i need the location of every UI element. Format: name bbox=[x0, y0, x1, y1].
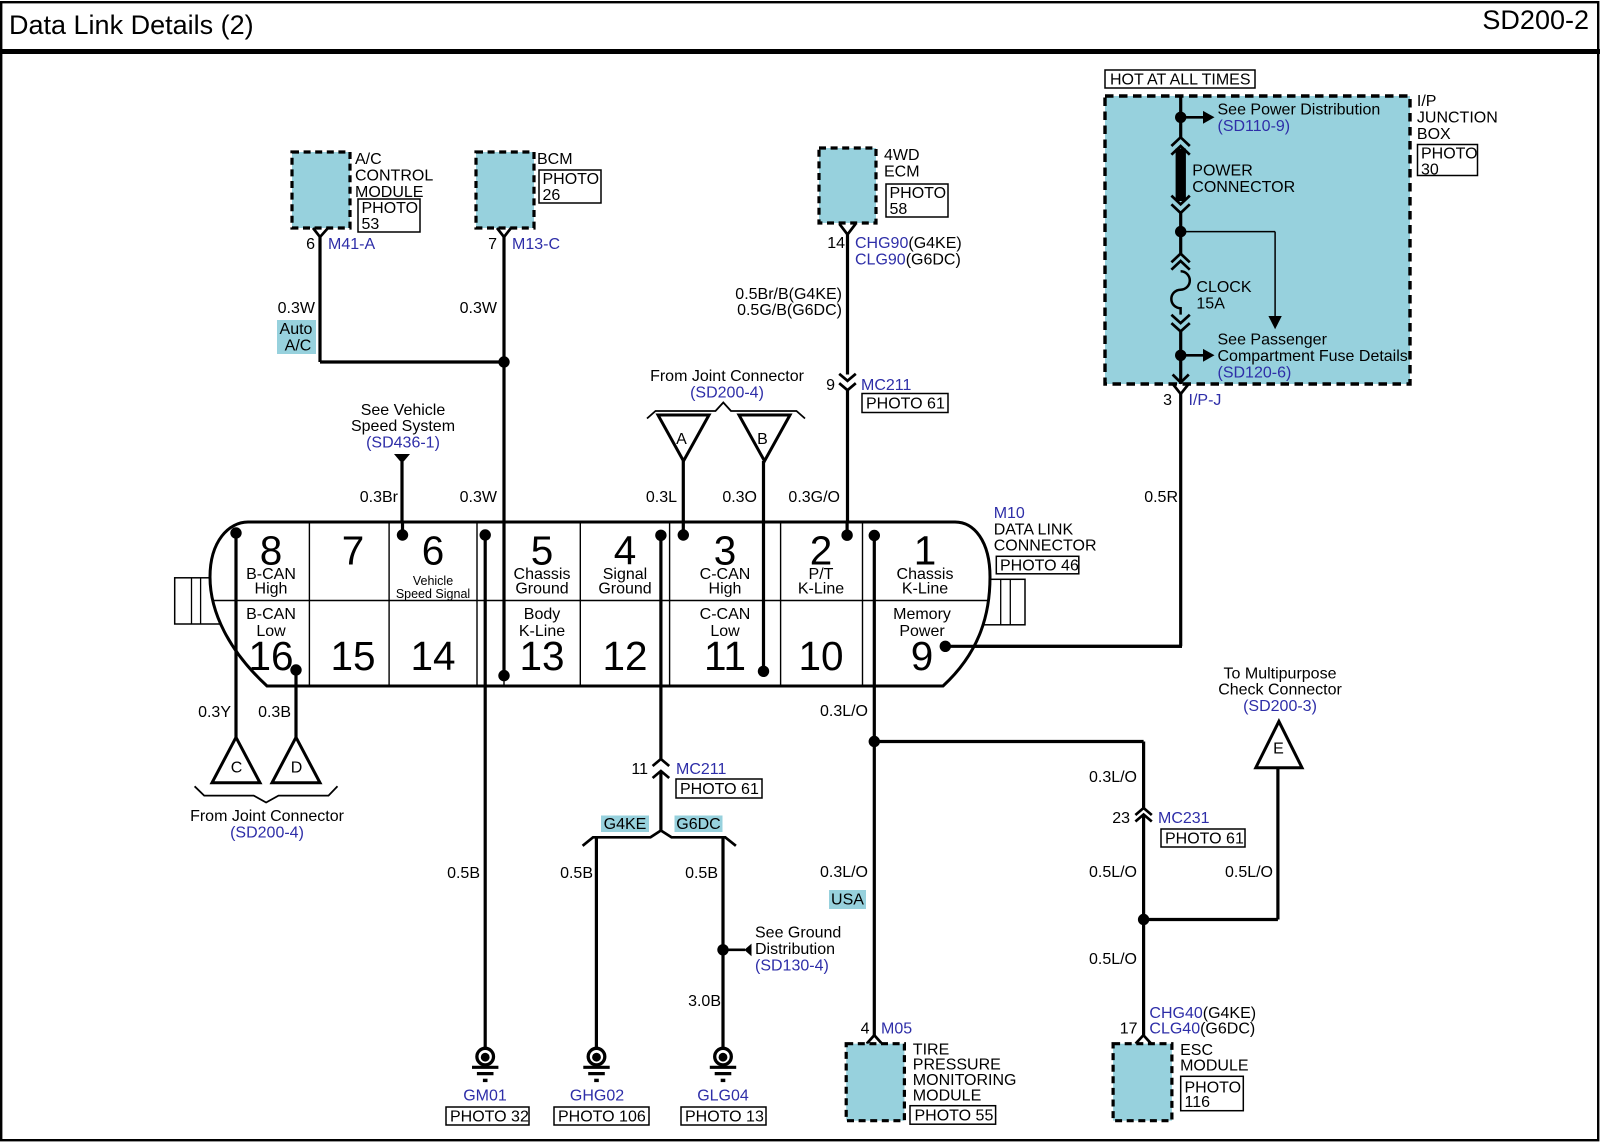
svg-text:USA: USA bbox=[831, 892, 864, 909]
svg-text:Speed Signal: Speed Signal bbox=[396, 587, 470, 601]
svg-text:0.5L/O: 0.5L/O bbox=[1089, 951, 1137, 968]
svg-text:Vehicle: Vehicle bbox=[413, 574, 453, 588]
svg-text:0.5B: 0.5B bbox=[447, 865, 480, 882]
svg-text:A/C: A/C bbox=[285, 338, 312, 355]
svg-text:3: 3 bbox=[1163, 392, 1172, 409]
svg-text:K-Line: K-Line bbox=[902, 581, 948, 598]
svg-text:0.5Br/B(G4KE): 0.5Br/B(G4KE) bbox=[735, 286, 842, 303]
svg-text:9: 9 bbox=[826, 377, 835, 394]
svg-text:0.5L/O: 0.5L/O bbox=[1225, 864, 1273, 881]
svg-text:CONTROL: CONTROL bbox=[355, 168, 433, 185]
svg-text:15: 15 bbox=[330, 633, 375, 679]
svg-text:0.3W: 0.3W bbox=[460, 300, 498, 317]
svg-text:I/P-J: I/P-J bbox=[1189, 392, 1222, 409]
svg-text:10: 10 bbox=[798, 633, 843, 679]
svg-text:7: 7 bbox=[488, 236, 497, 253]
svg-text:BOX: BOX bbox=[1417, 126, 1451, 143]
svg-text:Ground: Ground bbox=[515, 581, 568, 598]
svg-text:15A: 15A bbox=[1196, 296, 1225, 313]
svg-text:SD200-2: SD200-2 bbox=[1482, 5, 1589, 35]
svg-text:A: A bbox=[676, 431, 687, 448]
svg-text:PHOTO: PHOTO bbox=[1421, 146, 1478, 163]
svg-text:HOT AT ALL TIMES: HOT AT ALL TIMES bbox=[1110, 72, 1251, 89]
svg-text:POWER: POWER bbox=[1192, 163, 1252, 180]
svg-text:See Vehicle: See Vehicle bbox=[361, 402, 446, 419]
svg-text:17: 17 bbox=[1120, 1021, 1138, 1038]
svg-text:Distribution: Distribution bbox=[755, 941, 835, 958]
svg-text:11: 11 bbox=[631, 761, 648, 778]
svg-text:To Multipurpose: To Multipurpose bbox=[1224, 666, 1337, 683]
svg-text:High: High bbox=[255, 581, 288, 598]
svg-text:PHOTO 61: PHOTO 61 bbox=[866, 396, 945, 413]
svg-text:6: 6 bbox=[422, 528, 445, 574]
svg-text:G4KE: G4KE bbox=[604, 816, 647, 833]
svg-text:CHG40(G4KE): CHG40(G4KE) bbox=[1149, 1005, 1256, 1022]
svg-text:Data Link Details (2): Data Link Details (2) bbox=[9, 10, 254, 40]
svg-text:13: 13 bbox=[519, 633, 564, 679]
svg-text:4WD: 4WD bbox=[884, 147, 920, 164]
svg-text:0.5G/B(G6DC): 0.5G/B(G6DC) bbox=[737, 302, 842, 319]
svg-text:M10: M10 bbox=[994, 505, 1025, 522]
svg-text:12: 12 bbox=[602, 633, 647, 679]
svg-text:MODULE: MODULE bbox=[1180, 1058, 1248, 1075]
svg-text:14: 14 bbox=[827, 235, 845, 252]
svg-text:CONNECTOR: CONNECTOR bbox=[1192, 179, 1295, 196]
svg-text:(SD120-6): (SD120-6) bbox=[1218, 365, 1292, 382]
svg-text:See Ground: See Ground bbox=[755, 925, 841, 942]
svg-text:30: 30 bbox=[1421, 162, 1439, 179]
svg-text:0.3B: 0.3B bbox=[258, 704, 291, 721]
svg-text:0.3Br: 0.3Br bbox=[360, 489, 399, 506]
svg-text:See Passenger: See Passenger bbox=[1218, 332, 1328, 349]
svg-text:CLOCK: CLOCK bbox=[1196, 279, 1251, 296]
svg-text:PHOTO 106: PHOTO 106 bbox=[558, 1109, 646, 1126]
svg-text:PHOTO: PHOTO bbox=[543, 171, 600, 188]
svg-text:CLG40(G6DC): CLG40(G6DC) bbox=[1149, 1021, 1255, 1038]
svg-text:(SD130-4): (SD130-4) bbox=[755, 958, 829, 975]
svg-text:CONNECTOR: CONNECTOR bbox=[994, 538, 1097, 555]
svg-text:Memory: Memory bbox=[893, 606, 951, 623]
svg-text:A/C: A/C bbox=[355, 151, 382, 168]
svg-text:BCM: BCM bbox=[537, 151, 573, 168]
svg-text:(SD110-9): (SD110-9) bbox=[1218, 118, 1291, 135]
svg-text:PHOTO 61: PHOTO 61 bbox=[680, 781, 759, 798]
svg-text:C-CAN: C-CAN bbox=[700, 606, 751, 623]
svg-text:JUNCTION: JUNCTION bbox=[1417, 110, 1498, 127]
svg-text:PHOTO: PHOTO bbox=[890, 185, 947, 202]
svg-text:0.3L: 0.3L bbox=[646, 489, 677, 506]
svg-text:(SD200-4): (SD200-4) bbox=[690, 385, 764, 402]
svg-text:53: 53 bbox=[362, 216, 380, 233]
svg-text:PHOTO 13: PHOTO 13 bbox=[685, 1109, 764, 1126]
svg-text:C: C bbox=[231, 760, 243, 777]
svg-text:11: 11 bbox=[704, 633, 746, 679]
svg-text:Check Connector: Check Connector bbox=[1218, 682, 1342, 699]
svg-text:Body: Body bbox=[524, 606, 560, 623]
svg-text:3.0B: 3.0B bbox=[688, 993, 721, 1010]
svg-text:B-CAN: B-CAN bbox=[246, 606, 296, 623]
svg-text:G6DC: G6DC bbox=[676, 816, 720, 833]
svg-text:0.3O: 0.3O bbox=[722, 489, 757, 506]
svg-text:CLG90(G6DC): CLG90(G6DC) bbox=[855, 252, 961, 269]
svg-text:(SD200-3): (SD200-3) bbox=[1243, 698, 1317, 715]
svg-text:Ground: Ground bbox=[598, 581, 651, 598]
svg-text:26: 26 bbox=[543, 187, 561, 204]
svg-text:0.3W: 0.3W bbox=[460, 489, 498, 506]
svg-text:High: High bbox=[709, 581, 742, 598]
svg-text:CHG90(G4KE): CHG90(G4KE) bbox=[855, 235, 962, 252]
svg-text:0.3L/O: 0.3L/O bbox=[820, 864, 868, 881]
svg-text:GLG04: GLG04 bbox=[697, 1088, 749, 1105]
svg-text:M05: M05 bbox=[881, 1021, 912, 1038]
svg-text:0.3G/O: 0.3G/O bbox=[788, 489, 840, 506]
svg-text:D: D bbox=[291, 760, 303, 777]
svg-text:MONITORING: MONITORING bbox=[913, 1072, 1017, 1089]
svg-text:9: 9 bbox=[911, 633, 934, 679]
svg-text:Auto: Auto bbox=[280, 321, 313, 338]
svg-text:See Power Distribution: See Power Distribution bbox=[1218, 102, 1381, 119]
svg-text:PHOTO 32: PHOTO 32 bbox=[450, 1109, 529, 1126]
svg-text:M41-A: M41-A bbox=[328, 236, 375, 253]
svg-text:0.3L/O: 0.3L/O bbox=[820, 703, 868, 720]
svg-text:(SD200-4): (SD200-4) bbox=[230, 825, 304, 842]
svg-text:PHOTO 61: PHOTO 61 bbox=[1165, 831, 1244, 848]
svg-text:PHOTO 55: PHOTO 55 bbox=[915, 1107, 994, 1124]
svg-text:4: 4 bbox=[861, 1021, 870, 1038]
svg-text:6: 6 bbox=[306, 236, 315, 253]
svg-text:DATA LINK: DATA LINK bbox=[994, 522, 1074, 539]
svg-text:From Joint Connector: From Joint Connector bbox=[650, 368, 805, 385]
svg-text:PHOTO: PHOTO bbox=[362, 200, 419, 217]
svg-text:Speed System: Speed System bbox=[351, 418, 455, 435]
svg-text:MC211: MC211 bbox=[861, 377, 911, 394]
svg-text:58: 58 bbox=[890, 201, 908, 218]
svg-text:GM01: GM01 bbox=[463, 1088, 507, 1105]
svg-text:E: E bbox=[1273, 741, 1284, 758]
svg-text:ESC: ESC bbox=[1180, 1042, 1213, 1059]
svg-text:23: 23 bbox=[1112, 810, 1130, 827]
svg-text:MC211: MC211 bbox=[676, 761, 726, 778]
svg-text:M13-C: M13-C bbox=[512, 236, 560, 253]
svg-text:GHG02: GHG02 bbox=[570, 1088, 624, 1105]
svg-text:0.5B: 0.5B bbox=[560, 865, 593, 882]
svg-text:PHOTO 46: PHOTO 46 bbox=[1000, 558, 1079, 575]
svg-text:I/P: I/P bbox=[1417, 93, 1437, 110]
svg-text:0.3L/O: 0.3L/O bbox=[1089, 769, 1137, 786]
svg-text:From Joint Connector: From Joint Connector bbox=[190, 808, 345, 825]
svg-text:0.5R: 0.5R bbox=[1144, 489, 1178, 506]
svg-text:0.5L/O: 0.5L/O bbox=[1089, 864, 1137, 881]
svg-text:ECM: ECM bbox=[884, 164, 920, 181]
svg-text:B: B bbox=[757, 431, 768, 448]
svg-text:14: 14 bbox=[410, 633, 455, 679]
svg-text:116: 116 bbox=[1185, 1094, 1211, 1111]
svg-text:0.3Y: 0.3Y bbox=[198, 704, 231, 721]
svg-text:MODULE: MODULE bbox=[913, 1087, 981, 1104]
svg-text:16: 16 bbox=[248, 633, 293, 679]
svg-text:(SD436-1): (SD436-1) bbox=[366, 435, 440, 452]
svg-text:Compartment Fuse Details: Compartment Fuse Details bbox=[1218, 348, 1408, 365]
svg-text:K-Line: K-Line bbox=[798, 581, 844, 598]
svg-text:0.5B: 0.5B bbox=[685, 865, 718, 882]
svg-text:7: 7 bbox=[342, 528, 365, 574]
svg-text:MC231: MC231 bbox=[1158, 810, 1210, 827]
svg-text:0.3W: 0.3W bbox=[278, 300, 316, 317]
